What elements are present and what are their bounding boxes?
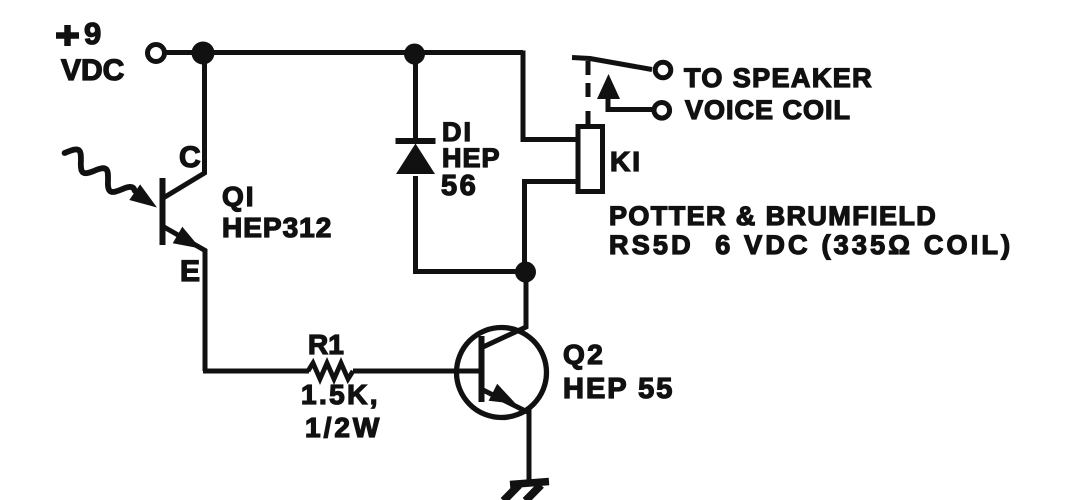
relay arrow up — [608, 96, 652, 110]
label +9 VDC — [56, 16, 124, 87]
svg-text:TO SPEAKER: TO SPEAKER — [684, 63, 873, 93]
svg-text:56: 56 — [441, 170, 478, 202]
svg-text:1/2W: 1/2W — [305, 412, 382, 443]
wire top-right corner to relay — [523, 51, 577, 140]
diode D1 triangle — [396, 144, 435, 175]
wire D1 bottom — [416, 176, 526, 272]
relay coil K1 — [578, 127, 603, 192]
svg-text:1.5K,: 1.5K, — [301, 379, 380, 410]
transistor Q1 emitter arrow — [173, 227, 201, 249]
svg-text:Q2: Q2 — [563, 339, 605, 370]
label Q1 HEP312 — [222, 181, 332, 243]
transistor Q2 emitter — [483, 390, 529, 482]
svg-text:E: E — [180, 255, 200, 288]
node junction A — [192, 42, 215, 65]
transistor Q2 collector — [483, 272, 526, 347]
wire relay bottom to junction — [525, 182, 578, 273]
diode D1 drop wire — [413, 54, 418, 140]
wire top rail — [165, 50, 524, 55]
svg-text:C: C — [179, 141, 201, 174]
svg-text:HEP 55: HEP 55 — [563, 373, 674, 405]
svg-text:VOICE COIL: VOICE COIL — [685, 95, 851, 125]
svg-text:VDC: VDC — [61, 54, 124, 87]
transistor Q2 emitter arrow — [489, 384, 516, 404]
svg-text:9: 9 — [84, 16, 101, 51]
wire Q1 collector drop — [164, 53, 205, 198]
relay armature — [572, 58, 652, 70]
label D1 HEP 56 — [441, 117, 501, 202]
relay dashed actuator link — [586, 61, 591, 127]
transistor Q2 base bar — [479, 336, 485, 402]
svg-text:QI: QI — [222, 181, 256, 212]
transistor Q1 base bar — [160, 178, 166, 245]
light arrow into Q1 — [65, 149, 135, 192]
node junction C — [515, 262, 536, 283]
svg-text:R1: R1 — [308, 329, 344, 360]
resistor R1 zigzag — [308, 363, 353, 379]
node junction B — [404, 44, 425, 65]
svg-text:HEP: HEP — [442, 143, 501, 173]
svg-text:KI: KI — [610, 146, 642, 177]
transistor Q2 circle — [457, 328, 547, 418]
contact voice coil (bottom) — [654, 103, 670, 119]
terminal +9 VDC — [148, 45, 165, 62]
svg-text:RS5D 6 VDC (335Ω COIL): RS5D 6 VDC (335Ω COIL) — [609, 230, 1013, 260]
contact to speaker (top) — [655, 62, 671, 78]
wire R1 right to Q2 base — [353, 369, 481, 374]
wire R1 left — [203, 369, 309, 374]
ground — [504, 482, 550, 500]
transistor Q1 emitter — [164, 227, 205, 371]
diode D1 cathode bar — [396, 138, 436, 144]
label Q2 HEP 55 — [563, 339, 674, 405]
svg-text:POTTER & BRUMFIELD: POTTER & BRUMFIELD — [609, 201, 937, 231]
svg-text:HEP312: HEP312 — [222, 212, 332, 243]
